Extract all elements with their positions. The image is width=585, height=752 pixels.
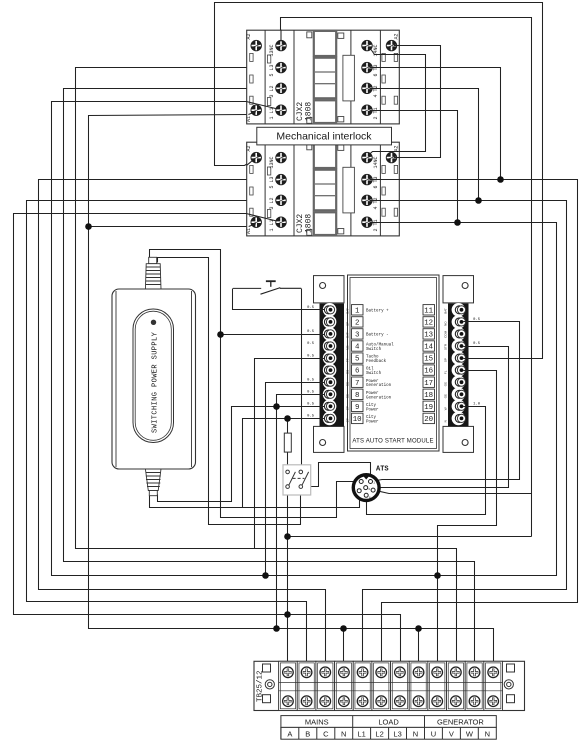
svg-text:18: 18 bbox=[424, 392, 433, 400]
svg-text:11: 11 bbox=[424, 307, 433, 315]
svg-text:W: W bbox=[443, 407, 447, 410]
node: t10/fuse junction bbox=[284, 415, 291, 422]
wire stubs into strip terminals bbox=[319, 310, 469, 419]
header table MAINS/LOAD/GENERATOR bbox=[281, 716, 496, 740]
main body bbox=[348, 275, 440, 451]
wire: T1 contactor1 branch bbox=[370, 111, 458, 223]
svg-text:Generation: Generation bbox=[366, 395, 392, 400]
svg-text:MAINS: MAINS bbox=[305, 717, 329, 726]
wire: PSU top B to relay bottom-right bbox=[158, 258, 301, 525]
wire: t7 Power Generation branch from 13NC contactor2 bbox=[266, 383, 327, 576]
wire: L1 KM2 diagonal bbox=[246, 214, 275, 221]
wire: t8 Power Generation branch bbox=[277, 395, 327, 629]
svg-text:CP: CP bbox=[346, 418, 350, 422]
PSU bottom connector bbox=[145, 469, 161, 491]
switching power supply bbox=[112, 257, 196, 495]
wire: 13NC contactor1 to ATS center pin bbox=[281, 18, 532, 537]
svg-text:13: 13 bbox=[424, 332, 433, 340]
svg-text:0.5: 0.5 bbox=[307, 330, 315, 334]
node: T2 junction bbox=[475, 197, 482, 204]
module numbered boxes bbox=[352, 305, 435, 425]
svg-text:L2: L2 bbox=[375, 729, 383, 738]
contactor KM2 bbox=[246, 142, 400, 236]
node: t3/PSU junction bbox=[217, 331, 224, 338]
wire: A2 left KM2 diagonal bbox=[247, 161, 253, 166]
svg-text:BAT: BAT bbox=[346, 308, 350, 314]
svg-text:SP: SP bbox=[346, 322, 350, 326]
wire: relay to col A with y537 link bbox=[287, 489, 289, 669]
svg-text:SWITCHING POWER SUPPLY: SWITCHING POWER SUPPLY bbox=[151, 331, 159, 433]
svg-text:N: N bbox=[341, 729, 346, 738]
svg-text:Switch: Switch bbox=[366, 371, 382, 376]
wire: L3 contactor1 to terminal V loop bbox=[76, 68, 457, 669]
wire: push button right lead to relay bbox=[301, 289, 303, 471]
svg-text:N: N bbox=[413, 729, 418, 738]
svg-text:Oil: Oil bbox=[366, 367, 374, 372]
svg-text:V: V bbox=[449, 729, 454, 738]
wire: T2 KM1 exit bbox=[370, 88, 401, 90]
svg-text:8: 8 bbox=[355, 392, 359, 400]
wire: L2 contactor2 to col B bbox=[27, 201, 307, 669]
wire: A1 KM1 diagonal bbox=[248, 112, 256, 115]
svg-text:COM: COM bbox=[443, 330, 447, 338]
svg-text:GENERATOR: GENERATOR bbox=[437, 717, 484, 726]
svg-text:L3: L3 bbox=[393, 729, 401, 738]
svg-text:15: 15 bbox=[424, 356, 433, 364]
svg-text:0.5: 0.5 bbox=[473, 318, 481, 322]
svg-text:N: N bbox=[485, 729, 490, 738]
svg-text:GE: GE bbox=[346, 382, 350, 386]
wire: t5 Tacho Feedback branch vertical bbox=[255, 359, 327, 549]
svg-text:Feedback: Feedback bbox=[366, 359, 387, 364]
wire: PSU top A / t3 / ATS top-left pin bbox=[150, 250, 359, 518]
wire: relay bottom-right to ATS top-right pin bbox=[303, 463, 371, 487]
wire: T2 net to col L1 bbox=[370, 89, 479, 201]
wire: T3 KM1 exit bbox=[370, 67, 401, 69]
svg-text:W: W bbox=[466, 729, 474, 738]
node: relay/537 junction bbox=[284, 533, 291, 540]
wire: 14NC KM1 exit bbox=[370, 49, 400, 55]
terminal block units bbox=[279, 661, 503, 710]
node: T3 junction bbox=[497, 176, 504, 183]
svg-text:3: 3 bbox=[355, 332, 359, 340]
push button PB bbox=[233, 281, 301, 294]
svg-text:City: City bbox=[366, 415, 377, 420]
svg-text:6: 6 bbox=[355, 368, 359, 376]
svg-text:0.5: 0.5 bbox=[307, 306, 315, 310]
wire: A2 right link between contactors bbox=[395, 46, 441, 158]
svg-text:OS: OS bbox=[346, 370, 350, 374]
svg-text:0.5: 0.5 bbox=[307, 378, 315, 382]
module terminal circles left bbox=[326, 306, 465, 423]
wire: T2 KM2 exit bbox=[370, 200, 401, 202]
svg-text:1: 1 bbox=[355, 307, 360, 315]
wire: N mains column bbox=[343, 629, 345, 669]
svg-text:Power: Power bbox=[366, 380, 379, 384]
wire: T3 net to col L2 bbox=[370, 68, 501, 180]
wire: L1 contactor2 to col L3 bbox=[14, 214, 401, 669]
svg-text:Mechanical interlock: Mechanical interlock bbox=[276, 131, 372, 143]
svg-text:STR: STR bbox=[443, 343, 447, 350]
svg-text:0.5: 0.5 bbox=[307, 403, 315, 407]
svg-text:Switch: Switch bbox=[366, 347, 382, 352]
ATS auto start module bbox=[314, 275, 474, 452]
node: colU/575.9 junction bbox=[434, 572, 441, 579]
svg-text:0.5: 0.5 bbox=[307, 354, 315, 358]
svg-text:N: N bbox=[443, 420, 447, 422]
svg-text:17: 17 bbox=[424, 380, 433, 388]
wire: T3 KM2 exit bbox=[370, 179, 401, 181]
node: T1 junction bbox=[454, 219, 461, 226]
svg-text:L1: L1 bbox=[358, 729, 366, 738]
svg-text:GE: GE bbox=[443, 394, 447, 398]
svg-text:GE: GE bbox=[443, 382, 447, 386]
svg-text:BAT: BAT bbox=[443, 308, 447, 314]
svg-text:MS: MS bbox=[346, 346, 350, 351]
mounting tabs bbox=[314, 276, 345, 303]
node: A1 junction bbox=[85, 223, 92, 230]
node: N load junction bbox=[415, 625, 422, 632]
svg-text:0.5: 0.5 bbox=[307, 391, 315, 395]
svg-text:Battery -: Battery - bbox=[366, 334, 389, 338]
wire: PSU bottom A to ATS left pin bbox=[150, 493, 360, 508]
svg-text:U: U bbox=[431, 729, 436, 738]
svg-text:9: 9 bbox=[355, 404, 359, 412]
svg-text:20: 20 bbox=[424, 416, 433, 424]
node: t8 bus junction bbox=[273, 625, 280, 632]
wire: push button left lead to t1 bbox=[233, 289, 327, 310]
svg-text:16: 16 bbox=[424, 368, 433, 376]
svg-text:LOAD: LOAD bbox=[378, 717, 399, 726]
wire: L1 contactor1 / terminal U / T1 contactor2 net bbox=[52, 102, 557, 576]
svg-text:SP: SP bbox=[443, 358, 447, 362]
wire: t9 City Power / PSU bottom B bbox=[158, 407, 327, 502]
svg-text:12: 12 bbox=[424, 320, 433, 328]
svg-text:BAT: BAT bbox=[346, 332, 350, 338]
svg-text:7: 7 bbox=[355, 380, 359, 388]
svg-text:ATS AUTO START MODULE: ATS AUTO START MODULE bbox=[352, 439, 433, 445]
node: t7/575.9 junction bbox=[262, 572, 269, 579]
svg-text:14: 14 bbox=[424, 344, 433, 352]
wire: t19 to ATS bottom pin bbox=[367, 407, 486, 515]
svg-text:GE: GE bbox=[346, 394, 350, 398]
wire: 14NC link between contactors bbox=[369, 49, 426, 156]
PSU top connector bbox=[149, 257, 157, 263]
svg-text:CP: CP bbox=[346, 406, 350, 410]
node: colA/615 junction bbox=[284, 611, 291, 618]
svg-text:NO: NO bbox=[443, 321, 447, 326]
svg-text:5: 5 bbox=[355, 356, 359, 364]
wire: fuse vertical to relay bbox=[287, 419, 289, 467]
wire: L1 KM1 diagonal bbox=[246, 102, 275, 109]
svg-text:Tacho: Tacho bbox=[366, 355, 379, 360]
wire: T1 KM1 exit bbox=[370, 110, 401, 112]
svg-text:1.0: 1.0 bbox=[473, 403, 481, 407]
svg-text:10: 10 bbox=[353, 416, 362, 424]
svg-text:City: City bbox=[366, 403, 377, 408]
svg-text:Power: Power bbox=[366, 392, 379, 396]
node: N mains junction bbox=[340, 625, 347, 632]
wire: A2 right KM2 bbox=[394, 157, 400, 159]
left terminal strip bbox=[320, 303, 350, 427]
wire overlays inside contactor bodies bbox=[246, 30, 400, 227]
svg-text:0.5: 0.5 bbox=[473, 342, 481, 346]
svg-text:Power: Power bbox=[366, 408, 379, 412]
wire: t10 City Power / fuse branch bbox=[243, 419, 327, 508]
svg-text:2: 2 bbox=[355, 320, 359, 328]
wire: 13NC KM1 exit up bbox=[280, 30, 282, 42]
contactor KM1 bbox=[246, 30, 400, 124]
svg-text:0.5: 0.5 bbox=[307, 342, 315, 346]
fuse F1 bbox=[284, 433, 291, 452]
wire: L2 contactor1 to terminal W loop bbox=[64, 89, 475, 669]
svg-text:Battery +: Battery + bbox=[366, 309, 389, 313]
wire: terminal U column vertical (t16 net) bbox=[438, 371, 497, 669]
relay / auto-manual switch SA bbox=[283, 465, 311, 495]
wire: 14NC KM2 entry bbox=[368, 152, 400, 156]
mechanical interlock box bbox=[257, 127, 392, 145]
wire: T1 KM2 exit bbox=[370, 222, 401, 224]
wire: A2 right KM1 bbox=[394, 45, 400, 47]
svg-text:0.5: 0.5 bbox=[307, 415, 315, 419]
ATS connector plug bbox=[353, 466, 388, 501]
svg-text:19: 19 bbox=[424, 404, 433, 412]
svg-text:Power: Power bbox=[366, 420, 379, 424]
wire: L3 contactor2 to col C bbox=[39, 180, 326, 669]
svg-text:Generation: Generation bbox=[366, 383, 392, 388]
svg-text:B: B bbox=[305, 729, 310, 738]
wire: A1 net (both contactors) to neutral bus bbox=[89, 115, 494, 669]
wire: N load column bbox=[418, 629, 420, 669]
wire: top loop A2 coil contactor2 to t15 bbox=[215, 3, 543, 359]
node: t8/t9 junction bbox=[273, 403, 280, 410]
svg-text:C: C bbox=[323, 729, 329, 738]
svg-text:4: 4 bbox=[355, 344, 360, 352]
wire: t14 to ATS right pin bbox=[375, 347, 509, 490]
svg-text:A: A bbox=[287, 729, 292, 738]
terminal block TB25/12 bbox=[254, 661, 525, 710]
svg-text:TF: TF bbox=[346, 358, 350, 362]
wire: A1 KM2 diagonal bbox=[249, 224, 256, 227]
right terminal strip bbox=[443, 303, 468, 427]
svg-text:ATS: ATS bbox=[376, 466, 389, 474]
svg-text:Auto/Manual: Auto/Manual bbox=[366, 343, 394, 348]
wire: t12 to ATS top-right pin bbox=[371, 322, 520, 482]
svg-text:FL: FL bbox=[443, 370, 447, 374]
